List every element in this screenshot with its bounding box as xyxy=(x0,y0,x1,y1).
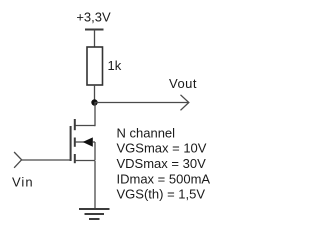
svg-text:Vin: Vin xyxy=(12,175,34,190)
svg-text:VGS(th) = 1,5V: VGS(th) = 1,5V xyxy=(117,187,206,202)
svg-text:+3,3V: +3,3V xyxy=(76,10,111,25)
svg-text:N channel: N channel xyxy=(117,125,176,140)
svg-text:1k: 1k xyxy=(108,58,122,73)
svg-text:VDSmax = 30V: VDSmax = 30V xyxy=(117,156,207,171)
svg-text:IDmax = 500mA: IDmax = 500mA xyxy=(117,171,211,186)
svg-text:VGSmax = 10V: VGSmax = 10V xyxy=(117,141,207,156)
svg-text:Vout: Vout xyxy=(169,76,197,91)
